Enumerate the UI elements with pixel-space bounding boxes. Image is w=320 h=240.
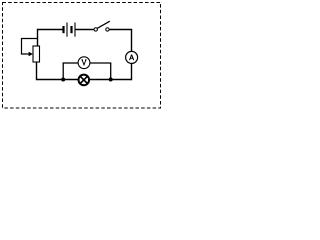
wire right vertical through ammeter xyxy=(131,30,133,81)
wire battery to switch xyxy=(76,29,95,31)
wire voltmeter branch top right segment xyxy=(90,62,112,64)
wire top-left from battery to corner xyxy=(38,29,63,31)
wire bottom rail xyxy=(37,79,132,81)
rheostat R1 body xyxy=(33,46,40,62)
voltmeter V1 xyxy=(78,57,90,69)
wire slider tap: from main vertical, left and down to arrow xyxy=(22,39,38,55)
wire switch to right corner xyxy=(109,29,132,31)
lamp L1 xyxy=(79,75,90,86)
wire voltmeter branch right vertical xyxy=(110,63,112,80)
battery B1 (two cells) xyxy=(64,23,76,37)
slider arrow of rheostat xyxy=(29,52,33,56)
wire voltmeter branch top left segment xyxy=(63,62,79,64)
node junction dot left (voltmeter branch) xyxy=(61,78,65,82)
wire voltmeter branch left vertical xyxy=(62,63,64,80)
switch S1 (open) xyxy=(94,21,110,31)
node junction dot right (voltmeter branch) xyxy=(109,78,113,82)
wire left vertical down to rheostat top terminal xyxy=(37,29,39,47)
wire rheostat bottom terminal down to bottom rail xyxy=(36,62,38,80)
ammeter A1 xyxy=(126,51,138,63)
